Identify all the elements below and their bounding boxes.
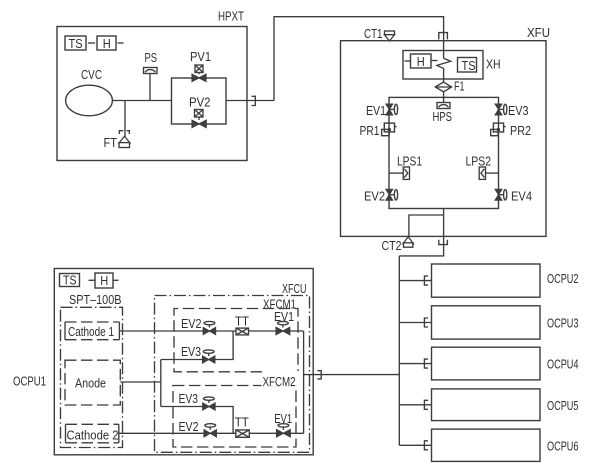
svg-text:TS: TS <box>63 272 77 287</box>
svg-text:PV1: PV1 <box>190 49 211 64</box>
svg-text:LPS1: LPS1 <box>397 153 422 168</box>
svg-text:HPS: HPS <box>433 109 453 124</box>
svg-text:EV2: EV2 <box>181 316 202 331</box>
svg-text:XFCM2: XFCM2 <box>263 374 296 389</box>
svg-text:EV2: EV2 <box>179 419 199 434</box>
svg-text:H: H <box>100 273 108 288</box>
svg-text:PS: PS <box>145 50 158 65</box>
svg-text:EV1: EV1 <box>274 411 292 426</box>
svg-text:OCPU6: OCPU6 <box>547 438 579 453</box>
svg-text:Anode: Anode <box>75 375 106 390</box>
svg-text:CVC: CVC <box>81 67 102 82</box>
svg-text:H: H <box>103 36 111 51</box>
svg-text:EV3: EV3 <box>181 344 201 359</box>
svg-text:OCPU4: OCPU4 <box>547 357 579 372</box>
svg-text:OCPU5: OCPU5 <box>547 398 579 413</box>
svg-text:HPXT: HPXT <box>218 9 244 24</box>
svg-text:FT: FT <box>104 135 118 150</box>
svg-text:OCPU1: OCPU1 <box>13 374 46 389</box>
svg-text:Cathode 2: Cathode 2 <box>67 427 119 442</box>
svg-text:F1: F1 <box>454 79 465 94</box>
svg-text:EV3: EV3 <box>508 103 529 118</box>
svg-text:EV3: EV3 <box>179 391 199 406</box>
svg-text:EV4: EV4 <box>511 189 532 204</box>
svg-text:Cathode 1: Cathode 1 <box>68 324 114 339</box>
svg-text:CT1: CT1 <box>364 26 383 41</box>
svg-text:H: H <box>417 54 425 69</box>
svg-text:XH: XH <box>486 57 501 72</box>
svg-text:EV1: EV1 <box>366 103 386 118</box>
svg-text:TT: TT <box>235 415 249 430</box>
svg-text:SPT–100B: SPT–100B <box>69 292 122 307</box>
svg-text:TS: TS <box>69 36 83 51</box>
svg-text:PV2: PV2 <box>189 95 211 110</box>
svg-text:EV1: EV1 <box>274 309 294 324</box>
svg-text:PR1: PR1 <box>360 123 380 138</box>
svg-text:TS: TS <box>462 58 476 73</box>
svg-text:OCPU2: OCPU2 <box>547 271 579 286</box>
svg-text:TT: TT <box>235 314 249 329</box>
svg-text:LPS2: LPS2 <box>466 153 492 168</box>
svg-text:PR2: PR2 <box>510 123 531 138</box>
svg-text:OCPU3: OCPU3 <box>547 316 579 331</box>
svg-text:CT2: CT2 <box>382 238 402 253</box>
svg-text:XFCU: XFCU <box>282 281 307 296</box>
svg-text:XFU: XFU <box>527 25 550 40</box>
svg-text:EV2: EV2 <box>364 189 385 204</box>
